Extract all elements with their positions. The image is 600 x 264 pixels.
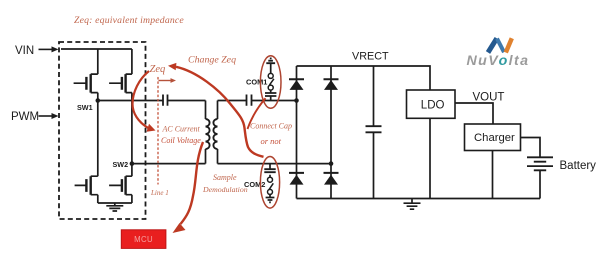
svg-text:Sample: Sample xyxy=(213,173,237,182)
svg-text:LDO: LDO xyxy=(421,100,445,112)
svg-text:Battery: Battery xyxy=(560,160,597,172)
svg-text:or not: or not xyxy=(261,136,282,146)
svg-text:NuVolta: NuVolta xyxy=(467,53,530,69)
svg-text:COM1: COM1 xyxy=(246,78,267,87)
svg-text:Charger: Charger xyxy=(474,132,515,144)
svg-text:Coil Voltage: Coil Voltage xyxy=(161,136,201,145)
svg-text:Line 1: Line 1 xyxy=(150,189,169,197)
svg-text:SW2: SW2 xyxy=(113,160,129,169)
svg-text:VOUT: VOUT xyxy=(473,92,505,104)
svg-text:Zeq: Zeq xyxy=(150,64,166,75)
svg-text:MCU: MCU xyxy=(134,235,153,244)
svg-text:SW1: SW1 xyxy=(77,103,93,112)
svg-text:PWM: PWM xyxy=(11,111,39,123)
svg-text:Connect Cap: Connect Cap xyxy=(250,122,292,131)
svg-text:Zeq: equivalent impedance: Zeq: equivalent impedance xyxy=(74,15,184,26)
svg-text:AC Current: AC Current xyxy=(162,125,201,134)
svg-text:Change Zeq: Change Zeq xyxy=(188,55,236,66)
svg-text:Demodulation: Demodulation xyxy=(202,185,248,194)
svg-text:VRECT: VRECT xyxy=(352,51,389,63)
svg-text:VIN: VIN xyxy=(15,45,34,57)
